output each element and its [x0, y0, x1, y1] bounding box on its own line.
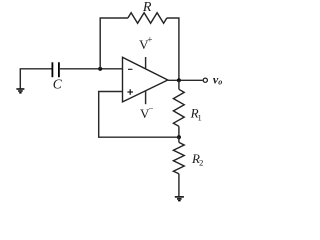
- node B (junction dot R1/R2): [177, 135, 181, 139]
- svg-text:C: C: [53, 77, 63, 92]
- label R: [142, 0, 152, 15]
- ground (left, input): [16, 89, 24, 93]
- svg-text:2: 2: [199, 158, 203, 168]
- label vo: [213, 73, 222, 87]
- wire output node down to R1: [178, 80, 180, 89]
- wire node B down to R2: [178, 137, 180, 142]
- wire feedback from node B to non-inverting input: [99, 92, 179, 138]
- resistor R1: [173, 89, 184, 126]
- node output (junction dot): [177, 78, 181, 82]
- label C: [53, 77, 63, 92]
- svg-text:1: 1: [197, 112, 201, 122]
- svg-text:+: +: [147, 35, 152, 45]
- terminal vo (open circle): [203, 78, 207, 82]
- ground (bottom, under R2): [175, 197, 184, 201]
- resistor R: [128, 13, 167, 24]
- wire R to output node: [167, 18, 179, 80]
- pin V+ of op-amp: [145, 57, 147, 69]
- wire junction up to R: [100, 18, 128, 69]
- wire R2 to ground: [178, 174, 180, 197]
- wire capacitor to inverting input: [59, 68, 123, 70]
- svg-text:−: −: [148, 103, 153, 113]
- svg-text:o: o: [218, 78, 222, 87]
- wire R1 to node B: [178, 126, 180, 137]
- label V+: [139, 35, 152, 53]
- label R2: [191, 151, 203, 168]
- svg-text:R: R: [142, 0, 152, 15]
- wire from ground to capacitor: [20, 69, 52, 89]
- label V-: [140, 103, 153, 121]
- label R1: [190, 106, 202, 123]
- wire op-amp output to terminal: [168, 79, 203, 81]
- resistor R2: [173, 142, 184, 173]
- op-amp U1: [123, 57, 168, 102]
- node A (junction dot at capacitor / feedback): [98, 67, 102, 71]
- capacitor C: [52, 62, 59, 77]
- pin V- of op-amp: [145, 90, 147, 104]
